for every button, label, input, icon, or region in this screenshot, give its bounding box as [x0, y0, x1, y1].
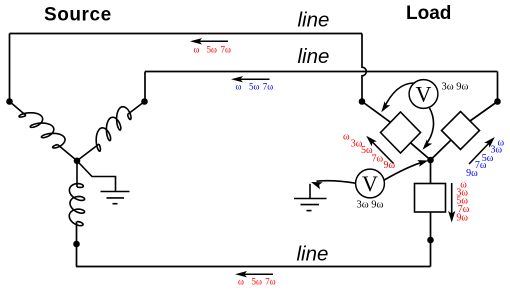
inductor source phase B lead-out [77, 144, 99, 161]
wire left vertical from line-1 to source [9, 34, 11, 102]
svg-text:7ω: 7ω [265, 277, 276, 287]
node source phase A terminal [6, 98, 13, 105]
square load element bottom (neutral to line-3) [415, 184, 446, 213]
svg-text:3ω 9ω: 3ω 9ω [442, 82, 469, 93]
svg-text:Source: Source [44, 5, 112, 26]
wire vertical from line-2 to load right node [497, 72, 499, 102]
svg-text:9ω: 9ω [456, 213, 468, 224]
wire right diamond load to load neutral [431, 140, 452, 160]
voltmeter V2 body (bottom) [356, 169, 385, 198]
inductor source phase A coil [19, 113, 65, 148]
arrow line-2 current direction [235, 78, 270, 80]
svg-text:5ω: 5ω [252, 277, 263, 287]
wire line-1 top horizontal [10, 33, 363, 35]
node A load upper-left [359, 98, 366, 105]
arrow line-1 current direction [194, 40, 228, 42]
diamond load element left (node A to neutral) [381, 112, 421, 153]
ground voltmeter V2 reference [309, 184, 311, 199]
svg-text:7ω: 7ω [372, 153, 384, 164]
node source phase B terminal [141, 98, 148, 105]
svg-text:line: line [298, 9, 330, 32]
wire line-2 middle horizontal [145, 71, 498, 73]
wire line-3 bottom horizontal [76, 266, 431, 268]
node B load upper-right [494, 98, 501, 105]
node load neutral [427, 157, 434, 164]
svg-text:V: V [362, 171, 378, 196]
svg-text:5ω: 5ω [207, 45, 218, 55]
svg-text:3ω 9ω: 3ω 9ω [357, 199, 384, 210]
node source phase C terminal [73, 241, 80, 248]
diamond load element right (node B to neutral) [442, 112, 480, 150]
ground source neutral [101, 191, 130, 193]
svg-text:5ω: 5ω [249, 82, 260, 92]
voltmeter V1 left probe to node A wire [384, 83, 414, 109]
svg-text:Load: Load [406, 3, 451, 24]
voltmeter V2 right probe to load neutral [384, 161, 425, 180]
svg-text:9ω: 9ω [384, 160, 396, 171]
voltmeter V1 right probe to neutral wire [425, 108, 434, 147]
svg-text:line: line [297, 243, 329, 266]
wire vertical from line-1 to load left node with hop over line-2 [362, 34, 366, 102]
wire load bottom to line-3 [430, 212, 432, 267]
inductor source phase C lead-in [76, 161, 78, 187]
svg-text:ω: ω [194, 45, 200, 55]
svg-text:ω: ω [343, 132, 350, 143]
arrow left diamond current direction [370, 139, 394, 164]
inductor source phase C coil [69, 184, 84, 226]
voltmeter V1 body (top) [409, 80, 438, 109]
svg-text:ω: ω [236, 82, 242, 92]
wire load right node to right diamond load [470, 102, 498, 122]
node source neutral [74, 158, 81, 165]
wire load neutral to bottom load [430, 160, 432, 184]
arrow line-3 current direction [239, 273, 273, 275]
arrow right diamond current direction [469, 141, 492, 165]
wire source bottom phase to line-3 [76, 222, 78, 267]
wire left diamond load to load neutral [411, 143, 431, 160]
svg-text:V: V [416, 81, 432, 106]
inductor source phase B lead-in [128, 102, 145, 115]
svg-text:7ω: 7ω [221, 45, 232, 55]
inductor source phase B coil [96, 107, 131, 151]
svg-text:ω: ω [238, 277, 244, 287]
wire load left node to left diamond load [362, 102, 391, 123]
arrow bottom load current direction (down) [451, 183, 453, 219]
svg-text:7ω: 7ω [263, 82, 274, 92]
node load bottom [427, 237, 434, 244]
svg-text:9ω: 9ω [466, 168, 478, 179]
svg-text:line: line [298, 45, 330, 68]
inductor source phase A lead-in [10, 102, 27, 116]
inductor source phase A lead-out [58, 145, 78, 161]
wire vertical from line-2 to source right phase [144, 72, 146, 102]
wire source neutral to ground elbow [77, 161, 116, 192]
voltmeter V2 left probe to ground [317, 181, 356, 184]
